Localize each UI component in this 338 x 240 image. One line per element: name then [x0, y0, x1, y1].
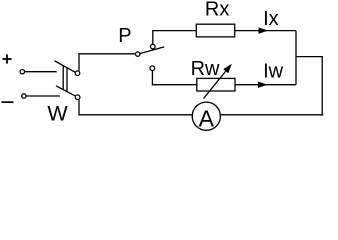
- bottom wire left of ammeter: [79, 100, 192, 115]
- wire from Rx to right vertical: [235, 30, 296, 32]
- svg-text:W: W: [47, 102, 68, 126]
- right vertical wire joining Rx and Rw branches: [295, 31, 297, 85]
- current arrow Iw: [258, 82, 268, 88]
- battery negative terminal: [22, 94, 26, 98]
- battery positive terminal: [20, 70, 24, 74]
- wire from junction to far right and down: [296, 57, 322, 115]
- switch P upper throw contact: [151, 44, 156, 49]
- bottom wire right of ammeter: [220, 114, 323, 116]
- svg-text:P: P: [118, 25, 131, 47]
- switch W bottom hinge contact: [75, 95, 80, 100]
- switch W bottom blade: [56, 86, 76, 96]
- switch W coupling bar right: [66, 67, 68, 92]
- wire from switch W up and right to switch P: [79, 54, 136, 71]
- switch W top hinge contact: [75, 71, 80, 76]
- switch W coupling bar left: [62, 65, 64, 90]
- rheostat Rw: [197, 78, 235, 91]
- switch W top blade: [55, 61, 76, 73]
- battery negative terminal label -: [1, 101, 13, 103]
- svg-text:Rw: Rw: [191, 58, 220, 80]
- switch P common contact: [136, 52, 140, 56]
- switch P blade: [140, 47, 164, 54]
- wire from P upper contact to Rx branch: [153, 31, 197, 45]
- wire from Rw to right vertical: [235, 84, 296, 86]
- wire from P lower contact to Rw branch: [152, 71, 196, 85]
- ammeter A: [192, 102, 220, 130]
- resistor Rx: [196, 24, 234, 37]
- svg-text:A: A: [199, 105, 215, 131]
- switch P lower throw contact: [150, 66, 155, 71]
- current arrow Ix: [259, 27, 269, 33]
- svg-text:Ix: Ix: [263, 8, 279, 30]
- svg-text:Iw: Iw: [263, 61, 284, 83]
- battery positive terminal label +: [2, 54, 11, 63]
- wire from - terminal to switch W: [26, 95, 60, 97]
- svg-text:Rx: Rx: [205, 0, 229, 21]
- wire from + terminal to switch W: [25, 71, 57, 73]
- rheostat Rw adjustment arrow: [204, 68, 229, 99]
